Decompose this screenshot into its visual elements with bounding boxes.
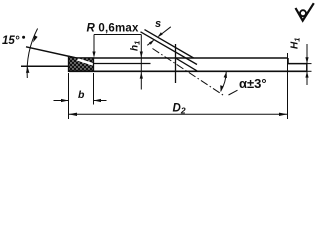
dimension h1	[140, 72, 143, 78]
dimension s leader lower	[147, 40, 154, 46]
bevel edge 15 deg	[26, 47, 77, 58]
tooth face lower segment	[176, 58, 198, 71]
svg-text:α±3°: α±3°	[239, 76, 267, 91]
plate bottom edge	[69, 70, 307, 72]
wedge bottom edge	[21, 65, 69, 67]
tooth lower face	[141, 32, 198, 65]
label star note	[22, 36, 25, 39]
dimension alpha arc	[220, 72, 237, 95]
dimension R 0,6max leader	[92, 35, 142, 90]
hub step edge	[288, 58, 307, 64]
dimension s leader upper	[158, 27, 171, 37]
svg-text:R 0,6max: R 0,6max	[87, 23, 140, 35]
dimension D2	[69, 53, 288, 119]
carbide insert (checkered)	[69, 56, 94, 71]
dimension b	[54, 73, 107, 119]
svg-text:15°: 15°	[2, 35, 20, 47]
inner shoulder line B	[94, 63, 151, 65]
plate right end edge	[306, 64, 308, 72]
dimension 15 deg arc	[26, 29, 38, 79]
svg-text:b: b	[78, 89, 85, 101]
tooth edge vertical	[175, 44, 177, 83]
tooth upper face	[145, 30, 194, 58]
dimension H1	[303, 44, 312, 85]
tooth axis dash-dot	[153, 49, 225, 97]
surface finish symbol	[296, 3, 314, 20]
plate top surface line	[77, 57, 289, 59]
svg-text:s: s	[155, 18, 161, 30]
